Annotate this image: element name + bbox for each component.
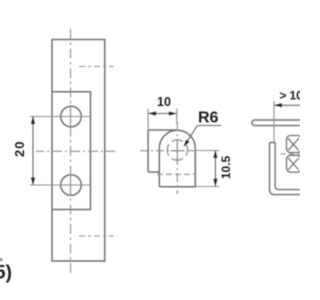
hole 1 vertical centerline dash bbox=[70, 107, 72, 126]
bend axis centerline lower bbox=[79, 235, 114, 237]
insert upper block bbox=[287, 136, 302, 153]
dimension 10.5 lower arrowhead bbox=[213, 179, 217, 187]
clip hole vertical centerline dash bbox=[176, 141, 178, 161]
clamp inner profile bbox=[275, 143, 300, 190]
dimension 10 line bbox=[148, 113, 176, 115]
clamp outer profile bbox=[270, 143, 300, 195]
dimension 10.5 extension top bbox=[196, 150, 220, 152]
dimension 10.5 extension bottom bbox=[196, 186, 220, 188]
radius leader arrowhead bbox=[184, 140, 190, 147]
svg-text:10: 10 bbox=[157, 95, 171, 109]
clip tab left edge bbox=[147, 130, 149, 172]
svg-text:10: 10 bbox=[290, 89, 301, 103]
dimension 10 extension left bbox=[147, 109, 149, 130]
clamp extension line bbox=[273, 101, 275, 142]
insert centerline bbox=[281, 153, 301, 155]
clip flat top line bbox=[148, 129, 177, 131]
svg-text:>: > bbox=[280, 89, 287, 103]
hole 2 horizontal centerline bbox=[30, 184, 91, 186]
insert lower block diagonal 2 bbox=[288, 158, 299, 170]
clip hole dashed circle bbox=[167, 140, 187, 160]
radius leader R6 bbox=[186, 126, 222, 144]
bracket outer rectangle bbox=[52, 40, 105, 262]
plate bar bbox=[252, 120, 300, 126]
clamp dimension line bbox=[274, 104, 300, 106]
svg-text:10.5: 10.5 bbox=[219, 155, 233, 179]
dimension 20 upper arrowhead bbox=[31, 117, 35, 125]
insert lower block bbox=[287, 155, 302, 172]
clip left edge bbox=[158, 148, 160, 187]
bracket horizontal centerline bbox=[36, 150, 115, 152]
dimension 10 right arrowhead bbox=[169, 112, 177, 116]
clip vertical centerline bbox=[176, 122, 178, 194]
insert upper block diagonal 1 bbox=[288, 138, 299, 150]
clip right edge bbox=[194, 148, 196, 187]
hole 1 horizontal centerline bbox=[30, 116, 91, 118]
svg-text:R6: R6 bbox=[198, 110, 219, 127]
clamp dimension arrowhead bbox=[274, 103, 282, 107]
dimension 10.5 upper arrowhead bbox=[213, 150, 217, 158]
svg-text:5): 5) bbox=[0, 263, 12, 284]
clip hole horizontal centerline dash bbox=[171, 150, 184, 152]
hole 1 bbox=[61, 106, 82, 127]
hole 2 bbox=[61, 175, 82, 196]
clip head arc bbox=[159, 130, 195, 148]
dimension 20 lower arrowhead bbox=[31, 178, 35, 186]
bracket vertical centerline bbox=[70, 29, 72, 276]
clip bottom edge bbox=[160, 186, 196, 188]
clip hidden edge bbox=[157, 173, 195, 175]
bracket inner tab outline bbox=[52, 92, 91, 210]
insert upper block diagonal 2 bbox=[288, 138, 299, 150]
crop edge stub bbox=[0, 258, 2, 261]
dimension 10 extension right bbox=[176, 109, 178, 125]
insert lower block diagonal 1 bbox=[288, 158, 299, 170]
clamp arm end cap bbox=[270, 142, 276, 144]
clip tab bottom edge bbox=[148, 171, 160, 173]
dimension 20 line bbox=[32, 117, 34, 186]
dimension 10 left arrowhead bbox=[148, 112, 156, 116]
dimension 10.5 line bbox=[214, 150, 216, 186]
hole 2 vertical centerline dash bbox=[70, 175, 72, 196]
svg-text:20: 20 bbox=[12, 141, 27, 157]
bend axis centerline upper bbox=[79, 66, 114, 68]
clip horizontal centerline bbox=[140, 150, 196, 152]
